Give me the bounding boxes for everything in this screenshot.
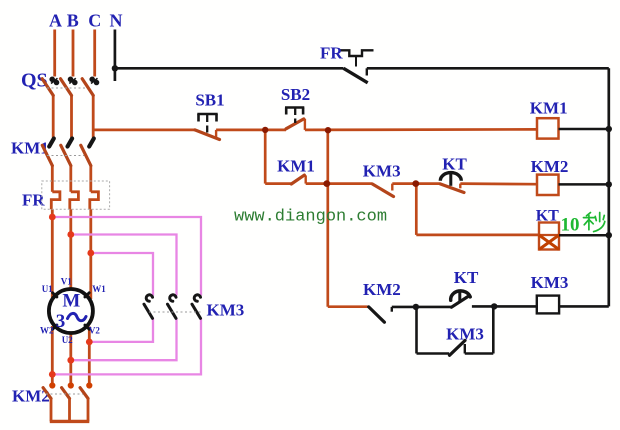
svg-text:KM3: KM3 <box>363 162 401 181</box>
svg-text:KM3: KM3 <box>531 273 569 292</box>
svg-text:V2: V2 <box>89 326 100 336</box>
svg-text:SB2: SB2 <box>281 85 310 104</box>
svg-text:KT: KT <box>442 155 467 174</box>
svg-text:KM3: KM3 <box>207 301 245 320</box>
svg-text:C: C <box>88 11 101 31</box>
svg-text:KM1: KM1 <box>530 99 568 118</box>
svg-text:U2: U2 <box>62 335 73 345</box>
svg-text:3: 3 <box>56 311 66 332</box>
svg-text:www.diangon.com: www.diangon.com <box>234 208 387 227</box>
svg-text:M: M <box>62 291 80 312</box>
svg-text:W1: W1 <box>92 284 106 294</box>
svg-text:KT: KT <box>536 208 559 225</box>
svg-text:W2: W2 <box>40 326 54 336</box>
svg-text:10: 10 <box>561 215 580 236</box>
svg-text:N: N <box>110 11 123 31</box>
svg-text:KM1: KM1 <box>277 157 315 176</box>
svg-text:KM3: KM3 <box>446 325 484 344</box>
svg-text:FR: FR <box>320 44 343 63</box>
svg-text:U1: U1 <box>42 284 53 294</box>
svg-text:A: A <box>49 11 62 31</box>
svg-text:SB1: SB1 <box>195 91 224 110</box>
svg-text:KM2: KM2 <box>363 280 401 299</box>
svg-text:KT: KT <box>454 268 479 287</box>
svg-text:B: B <box>67 11 79 31</box>
svg-text:V1: V1 <box>61 277 72 287</box>
svg-text:KM2: KM2 <box>531 157 569 176</box>
